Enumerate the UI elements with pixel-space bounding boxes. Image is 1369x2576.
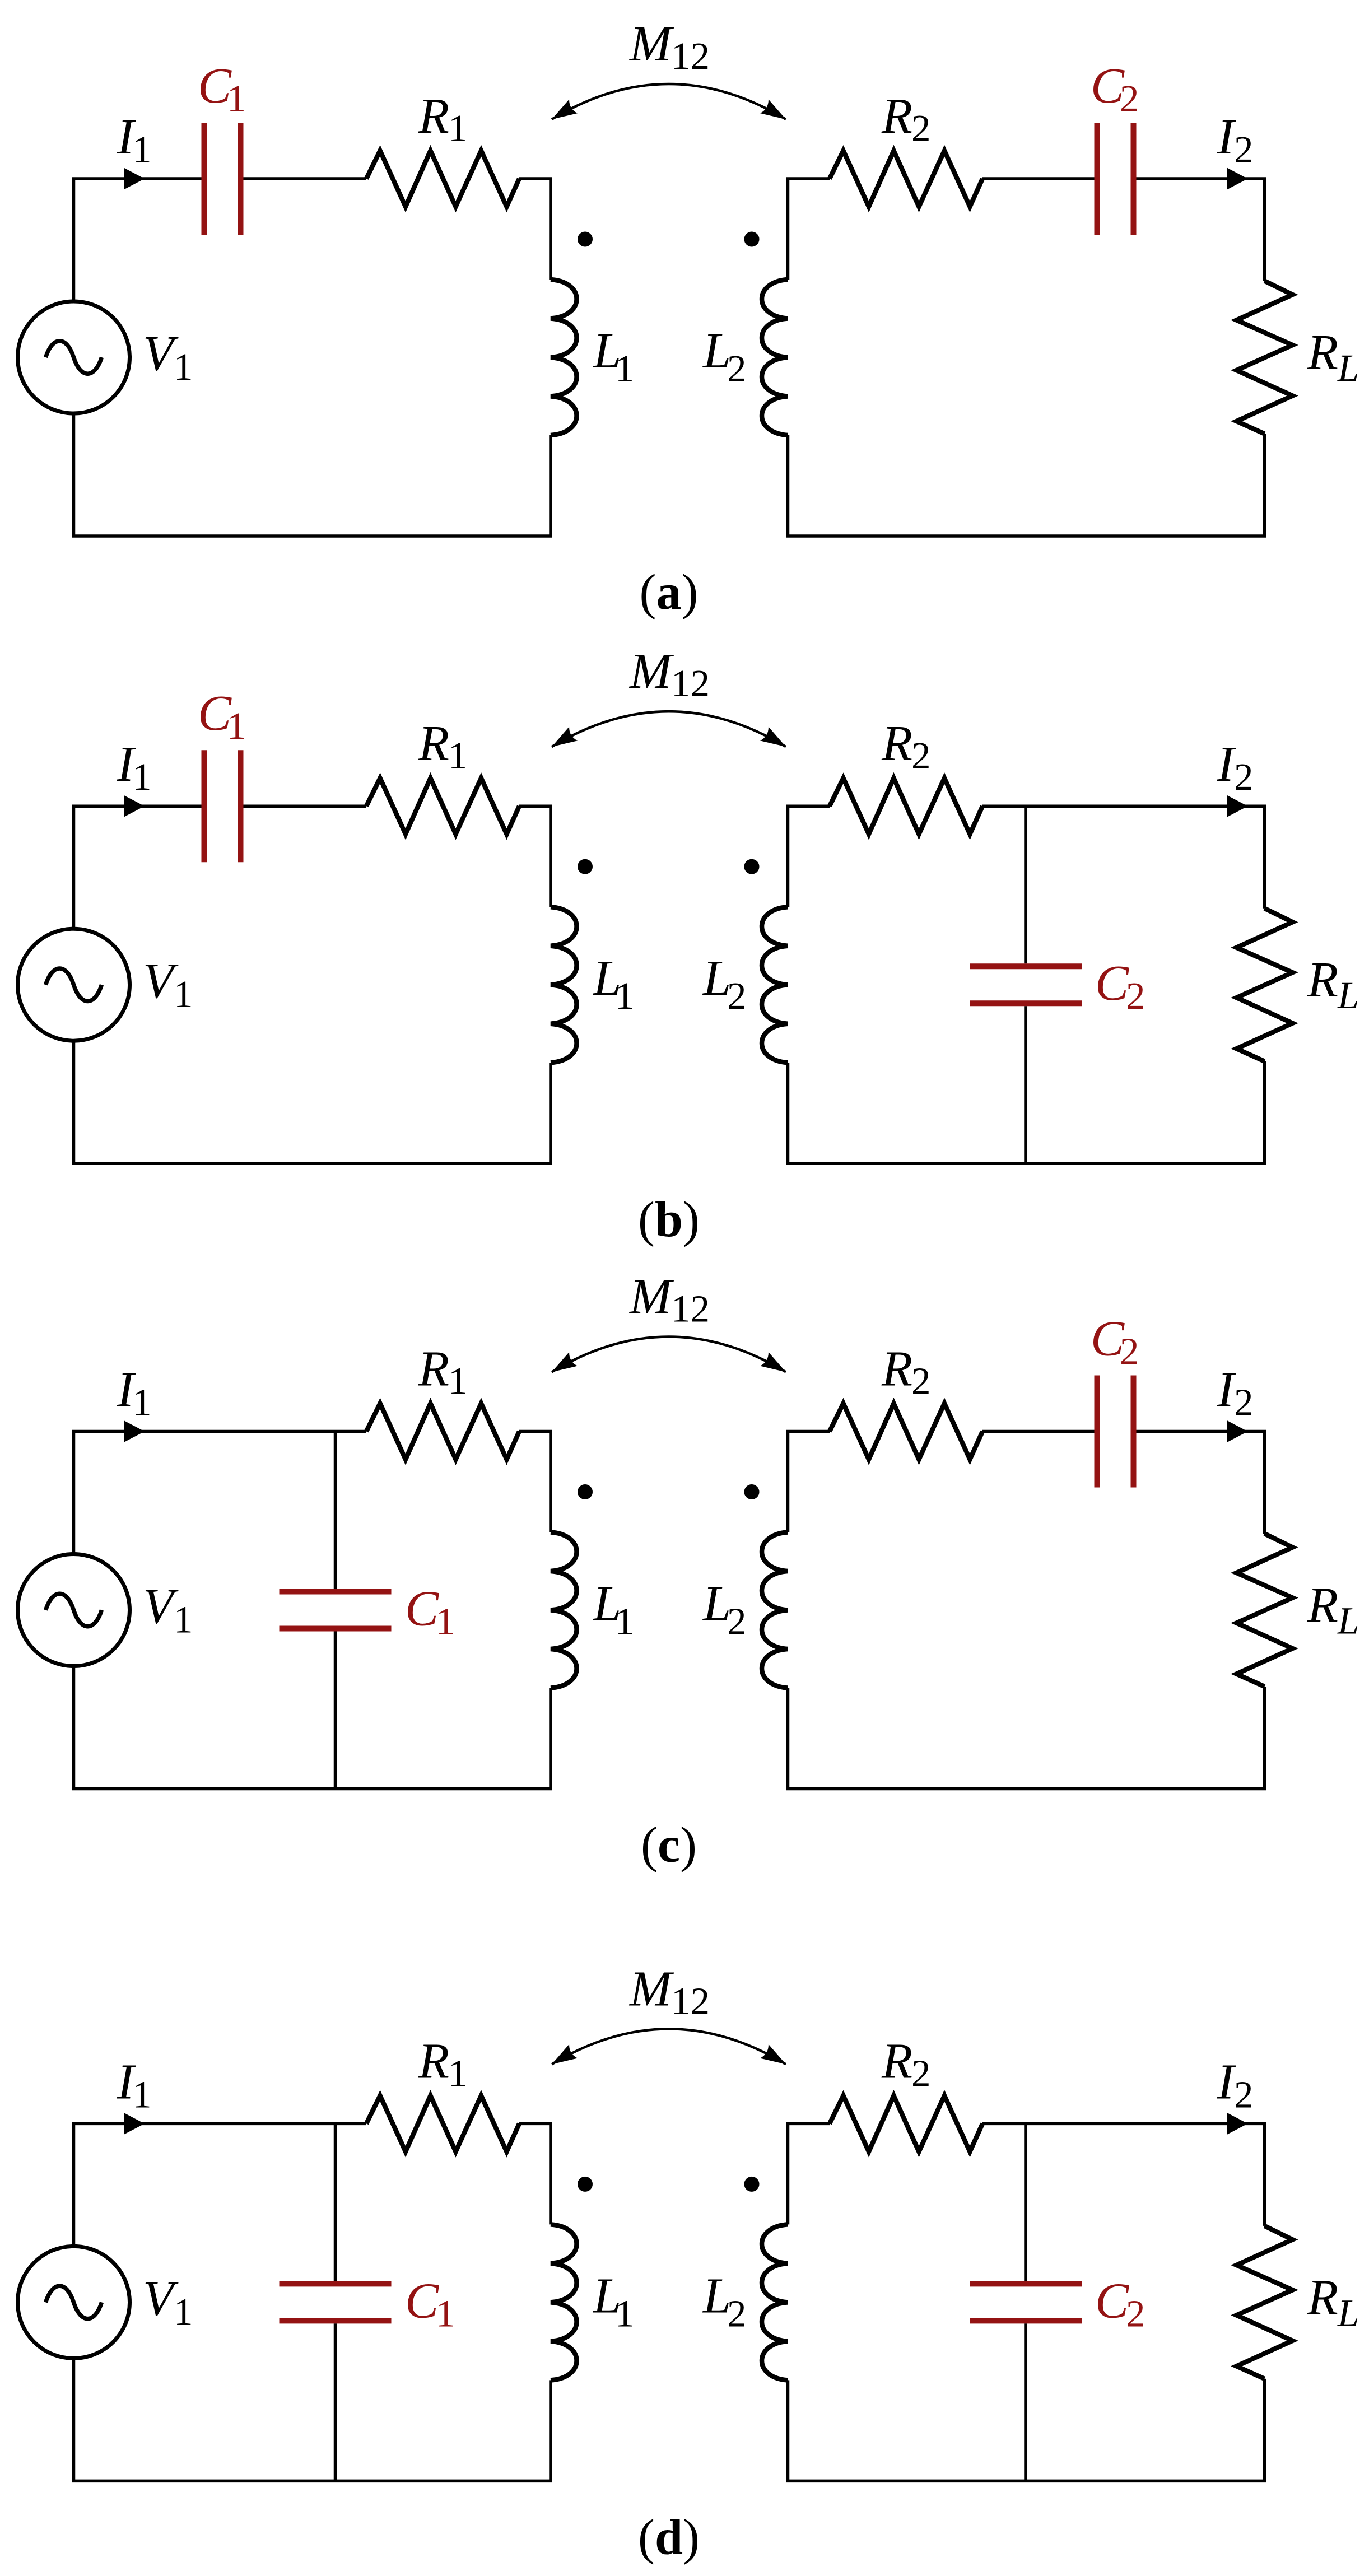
resistor R2 — [830, 2095, 982, 2151]
label C1 — [405, 1581, 455, 1643]
resistor R1 — [366, 778, 519, 834]
label L1 — [592, 2268, 635, 2335]
coupling dot (L1) — [578, 2177, 593, 2192]
wire: C2 branch lower — [1024, 1006, 1027, 1163]
wire: C2 branch upper — [1024, 806, 1027, 963]
label C2 — [1091, 1311, 1139, 1373]
svg-text:C: C — [1095, 956, 1129, 1011]
label V1 — [143, 326, 193, 388]
mutual inductance arc M12 — [548, 711, 790, 753]
svg-text:2: 2 — [911, 2052, 931, 2094]
svg-text:M: M — [628, 644, 674, 699]
svg-text:M: M — [628, 1961, 674, 2016]
wire: top-right corner into RL — [1137, 179, 1265, 281]
label M12 — [628, 16, 710, 77]
label L1 — [592, 1576, 635, 1643]
svg-text:2: 2 — [1126, 975, 1146, 1017]
label V1 — [143, 1579, 193, 1641]
svg-text:M: M — [628, 16, 674, 72]
resistor R1 — [366, 2095, 519, 2151]
voltage source V1 — [18, 929, 130, 1041]
svg-text:12: 12 — [671, 1979, 710, 2022]
label R1 — [418, 88, 468, 150]
label L2 — [702, 323, 747, 390]
svg-text:1: 1 — [227, 77, 246, 120]
coupling dot (L2) — [744, 2177, 760, 2192]
svg-text:2: 2 — [1120, 77, 1139, 120]
svg-text:(b): (b) — [638, 1192, 700, 1247]
wire: C1 branch lower — [334, 1632, 337, 1789]
wire: primary bottom loop — [74, 413, 551, 536]
label RL — [1307, 2270, 1359, 2334]
svg-text:(a): (a) — [640, 565, 699, 620]
current arrow I1 — [124, 168, 145, 190]
mutual inductance arc M12 — [548, 2029, 790, 2071]
label R2 — [881, 2033, 931, 2094]
svg-text:2: 2 — [1120, 1330, 1139, 1373]
wire: top segment R2 to top-right corner into RL — [982, 806, 1265, 909]
inductor L1 — [551, 280, 577, 435]
current arrow I2 — [1227, 2113, 1248, 2135]
inductor L2 — [762, 280, 788, 435]
inductor L2 — [762, 907, 788, 1063]
label R1 — [418, 716, 468, 777]
wire: secondary left side and top segment to R2 — [788, 1432, 830, 1532]
wire: top-right corner into L1 — [519, 179, 551, 280]
label C1 — [198, 58, 246, 120]
svg-text:2: 2 — [1234, 2073, 1254, 2116]
label I2 — [1217, 1362, 1254, 1424]
mutual inductance arc M12 — [548, 84, 790, 126]
label RL — [1307, 952, 1359, 1017]
wire: C1 branch upper — [334, 2123, 337, 2281]
label I1 — [117, 737, 152, 798]
svg-text:1: 1 — [436, 1600, 455, 1643]
coupling dot (L1) — [578, 859, 593, 874]
current arrow I2 — [1227, 1420, 1248, 1442]
svg-text:1: 1 — [132, 756, 152, 798]
label C2 — [1095, 956, 1146, 1017]
resistor RL (load) — [1237, 909, 1293, 1061]
capacitor C1 (parallel) — [280, 1592, 392, 1629]
label I1 — [117, 2054, 152, 2116]
svg-text:2: 2 — [727, 975, 747, 1017]
svg-text:I: I — [1217, 737, 1236, 792]
svg-text:1: 1 — [448, 1360, 468, 1403]
capacitor C2 (parallel) — [970, 966, 1082, 1003]
inductor L1 — [551, 2224, 577, 2380]
mutual inductance arc M12 — [548, 1337, 790, 1379]
wire: top segment R2 to C2 — [982, 1430, 1095, 1433]
wire: primary bottom loop — [74, 2358, 551, 2481]
label C1 — [405, 2273, 455, 2335]
coupling dot (L1) — [578, 232, 593, 247]
wire: top segment R2 to top-right corner into RL — [982, 2123, 1265, 2226]
wire: C1 branch lower — [334, 2323, 337, 2481]
svg-text:1: 1 — [448, 107, 468, 150]
wire: top-right corner into L1 — [519, 806, 551, 907]
label I2 — [1217, 2054, 1254, 2116]
label R1 — [418, 2033, 468, 2094]
svg-text:1: 1 — [615, 1600, 635, 1643]
svg-text:R: R — [418, 1341, 449, 1397]
svg-text:2: 2 — [727, 2292, 747, 2335]
svg-text:2: 2 — [1234, 756, 1254, 798]
svg-text:12: 12 — [671, 35, 710, 77]
voltage source V1 — [18, 301, 130, 413]
svg-text:I: I — [1217, 1362, 1236, 1418]
wire: primary left side and top-left segment to C1 — [74, 806, 202, 929]
wire: secondary bottom loop — [788, 2379, 1265, 2481]
wire: secondary bottom loop — [788, 1687, 1265, 1789]
svg-text:1: 1 — [132, 1381, 152, 1424]
svg-text:12: 12 — [671, 662, 710, 705]
svg-text:L: L — [1337, 347, 1359, 389]
svg-text:1: 1 — [436, 2292, 455, 2335]
current arrow I1 — [124, 795, 145, 817]
svg-text:L: L — [1337, 1600, 1359, 1642]
wire: C2 branch upper — [1024, 2123, 1027, 2281]
coupling dot (L2) — [744, 1484, 760, 1499]
label I2 — [1217, 109, 1254, 171]
wire: top segment C1 to R1 — [244, 804, 367, 808]
label I1 — [117, 1362, 152, 1424]
wire: secondary left side and top segment to R2 — [788, 179, 830, 280]
svg-text:L: L — [1337, 974, 1359, 1017]
svg-text:R: R — [418, 88, 449, 144]
svg-text:1: 1 — [227, 705, 246, 747]
label L2 — [702, 2268, 747, 2335]
svg-text:R: R — [1307, 1578, 1338, 1633]
wire: primary bottom loop — [74, 1041, 551, 1163]
svg-text:2: 2 — [727, 1600, 747, 1643]
svg-text:2: 2 — [911, 1360, 931, 1403]
svg-text:R: R — [1307, 325, 1338, 380]
capacitor C1 (parallel) — [280, 2284, 392, 2321]
svg-text:I: I — [1217, 2054, 1236, 2109]
svg-text:2: 2 — [911, 107, 931, 150]
svg-text:1: 1 — [615, 2292, 635, 2335]
capacitor C2 (parallel) — [970, 2284, 1082, 2321]
svg-text:2: 2 — [1234, 128, 1254, 171]
resistor R2 — [830, 778, 982, 834]
resistor R1 — [366, 1404, 519, 1460]
svg-text:R: R — [881, 88, 912, 144]
label V1 — [143, 953, 193, 1016]
label C1 — [198, 686, 246, 747]
wire: primary left side and top-left segment to C1 — [74, 179, 202, 301]
label L1 — [592, 951, 635, 1017]
wire: secondary left side and top segment to R2 — [788, 806, 830, 907]
svg-text:R: R — [881, 1341, 912, 1397]
label M12 — [628, 1269, 710, 1330]
svg-text:R: R — [881, 716, 912, 771]
label RL — [1307, 325, 1359, 389]
capacitor C1 (series) — [204, 123, 241, 235]
svg-text:M: M — [628, 1269, 674, 1325]
svg-text:1: 1 — [615, 975, 635, 1017]
svg-text:R: R — [881, 2033, 912, 2089]
label R1 — [418, 1341, 468, 1403]
label R2 — [881, 716, 931, 777]
svg-text:C: C — [405, 1581, 439, 1637]
inductor L2 — [762, 1532, 788, 1688]
svg-text:2: 2 — [1234, 1381, 1254, 1424]
wire: primary left side and top segment to R1 — [74, 1432, 367, 1554]
svg-text:12: 12 — [671, 1288, 710, 1330]
label R2 — [881, 88, 931, 150]
svg-text:R: R — [1307, 2270, 1338, 2325]
wire: primary bottom loop — [74, 1666, 551, 1789]
resistor RL (load) — [1237, 281, 1293, 434]
svg-text:C: C — [1095, 2273, 1129, 2328]
svg-text:1: 1 — [615, 347, 635, 390]
svg-text:1: 1 — [174, 346, 193, 388]
label L1 — [592, 323, 635, 390]
wire: top segment C1 to R1 — [244, 177, 367, 180]
current arrow I2 — [1227, 795, 1248, 817]
label RL — [1307, 1578, 1359, 1642]
resistor R1 — [366, 151, 519, 207]
svg-text:1: 1 — [174, 973, 193, 1016]
svg-text:R: R — [418, 716, 449, 771]
label C2 — [1091, 58, 1139, 120]
current arrow I1 — [124, 1420, 145, 1442]
label I2 — [1217, 737, 1254, 798]
svg-text:2: 2 — [1126, 2292, 1146, 2335]
wire: secondary bottom loop — [788, 1061, 1265, 1164]
label M12 — [628, 644, 710, 705]
wire: top segment R2 to C2 — [982, 177, 1095, 180]
svg-text:C: C — [405, 2273, 439, 2328]
coupling dot (L2) — [744, 859, 760, 874]
svg-text:2: 2 — [727, 347, 747, 390]
wire: secondary bottom loop — [788, 434, 1265, 537]
svg-text:1: 1 — [132, 2073, 152, 2116]
svg-text:2: 2 — [911, 734, 931, 777]
resistor R2 — [830, 151, 982, 207]
wire: secondary left side and top segment to R2 — [788, 2123, 830, 2224]
label L2 — [702, 1576, 747, 1643]
wire: top-right corner into L1 — [519, 2123, 551, 2224]
capacitor C2 (series) — [1097, 123, 1134, 235]
wire: C2 branch lower — [1024, 2323, 1027, 2481]
svg-text:I: I — [1217, 109, 1236, 165]
label I1 — [117, 109, 152, 171]
wire: primary left side and top segment to R1 — [74, 2123, 367, 2246]
capacitor C1 (series) — [204, 750, 241, 862]
svg-text:1: 1 — [448, 734, 468, 777]
inductor L1 — [551, 907, 577, 1063]
svg-text:1: 1 — [132, 128, 152, 171]
wire: top-right corner into L1 — [519, 1432, 551, 1532]
resistor R2 — [830, 1404, 982, 1460]
svg-text:R: R — [1307, 952, 1338, 1008]
label C2 — [1095, 2273, 1146, 2335]
current arrow I2 — [1227, 168, 1248, 190]
capacitor C2 (series) — [1097, 1376, 1134, 1488]
svg-text:R: R — [418, 2033, 449, 2089]
voltage source V1 — [18, 1554, 130, 1666]
svg-text:(d): (d) — [638, 2509, 700, 2565]
label R2 — [881, 1341, 931, 1403]
coupling dot (L2) — [744, 232, 760, 247]
label V1 — [143, 2271, 193, 2333]
resistor RL (load) — [1237, 1534, 1293, 1687]
coupling dot (L1) — [578, 1484, 593, 1499]
voltage source V1 — [18, 2246, 130, 2358]
inductor L1 — [551, 1532, 577, 1688]
svg-text:1: 1 — [174, 1599, 193, 1641]
label L2 — [702, 951, 747, 1017]
inductor L2 — [762, 2224, 788, 2380]
label M12 — [628, 1961, 710, 2022]
wire: C1 branch upper — [334, 1432, 337, 1589]
svg-text:(c): (c) — [641, 1818, 697, 1873]
svg-text:1: 1 — [174, 2290, 193, 2333]
current arrow I1 — [124, 2113, 145, 2135]
svg-text:L: L — [1337, 2291, 1359, 2334]
resistor RL (load) — [1237, 2226, 1293, 2379]
wire: top-right corner into RL — [1137, 1432, 1265, 1534]
svg-text:1: 1 — [448, 2052, 468, 2094]
